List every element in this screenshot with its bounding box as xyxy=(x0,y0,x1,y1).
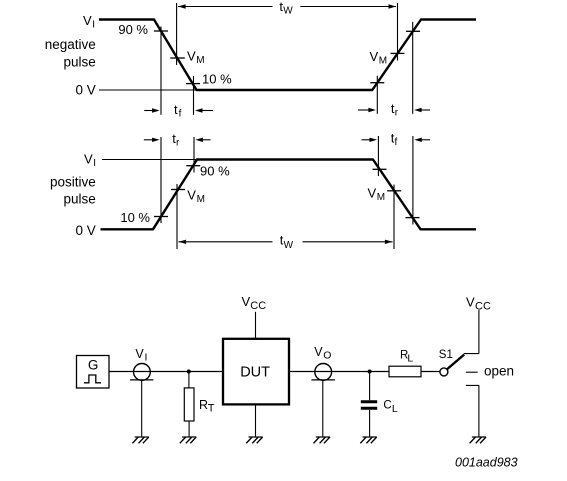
tick 90% falling (wave2) xyxy=(373,168,387,170)
negative pulse caption xyxy=(45,37,96,70)
DUT U1 xyxy=(223,339,289,405)
svg-text:f: f xyxy=(179,108,182,119)
ground (probe VO) xyxy=(314,437,331,443)
wire output net xyxy=(289,371,440,373)
tr label (wave1) xyxy=(391,101,399,119)
svg-text:10 %: 10 % xyxy=(120,210,150,225)
node VM label (wave1 rising edge) xyxy=(370,49,388,67)
svg-text:V: V xyxy=(242,294,251,309)
tick 10% falling (wave1) xyxy=(186,83,200,85)
svg-text:open: open xyxy=(484,363,514,378)
tick 90% rising (wave1) xyxy=(406,30,420,32)
svg-text:V: V xyxy=(368,186,377,201)
node VM label (wave1 falling edge) xyxy=(187,48,205,66)
extension line VM rising to tW (wave1) xyxy=(397,3,399,61)
svg-text:001aad983: 001aad983 xyxy=(455,456,518,470)
arrowhead tW left (wave2) xyxy=(179,240,187,244)
tf label (wave1) xyxy=(174,102,182,120)
svg-text:M: M xyxy=(197,194,205,205)
svg-text:I: I xyxy=(93,158,96,169)
tW label (wave2) xyxy=(280,233,294,252)
node VI label (wave2) xyxy=(84,152,96,170)
wire main input net xyxy=(109,371,223,373)
tick VM falling (wave2) xyxy=(387,190,401,192)
wire VI reference line (wave2) xyxy=(102,159,197,161)
arrowhead tW left (wave1) xyxy=(178,4,186,8)
pulse generator G xyxy=(77,356,110,389)
node VM label (wave2 falling edge) xyxy=(368,186,386,204)
svg-text:V: V xyxy=(370,49,379,64)
svg-text:M: M xyxy=(379,55,387,66)
svg-text:W: W xyxy=(284,240,294,251)
svg-text:L: L xyxy=(392,403,398,415)
extension line 10% rising to tr (wave1) xyxy=(376,76,378,114)
extension line VM rising to tW (wave2) xyxy=(176,184,178,249)
tf label (wave2) xyxy=(391,131,398,149)
svg-text:90 %: 90 % xyxy=(118,22,148,37)
extension line 90% falling to tf (wave1) xyxy=(160,27,162,115)
svg-text:L: L xyxy=(407,353,413,365)
svg-text:CC: CC xyxy=(250,300,266,312)
svg-text:positive: positive xyxy=(50,174,96,189)
RL label xyxy=(400,350,413,365)
node junction input xyxy=(187,370,191,374)
extension line 90% falling to tf (wave2) xyxy=(377,136,379,176)
node junction output xyxy=(368,370,372,374)
svg-text:C: C xyxy=(383,399,391,411)
dimension tf arrows (wave2) xyxy=(362,138,431,142)
svg-text:f: f xyxy=(395,137,398,148)
open throw contact xyxy=(466,371,478,373)
wire DUT to ground xyxy=(255,404,257,437)
svg-text:V: V xyxy=(314,345,323,359)
node VI label (wave1) xyxy=(83,13,95,31)
tick 90% rising (wave2) xyxy=(186,165,200,167)
probe VO xyxy=(311,364,335,438)
svg-text:T: T xyxy=(208,403,215,415)
extension line 90% rising to tr (wave1) xyxy=(412,22,414,114)
svg-text:V: V xyxy=(466,294,475,309)
VCC label (DUT supply) xyxy=(242,294,267,312)
svg-text:DUT: DUT xyxy=(240,364,270,380)
extension line 10% rising to tr (wave2) xyxy=(160,137,162,223)
svg-text:V: V xyxy=(187,187,196,202)
svg-text:90 %: 90 % xyxy=(200,163,230,178)
RT label xyxy=(199,398,215,415)
dimension tr arrows (wave2) xyxy=(144,138,211,142)
tick 90% falling (wave1) xyxy=(154,30,168,32)
wire positive pulse waveform trace xyxy=(101,160,477,230)
VCC label (switch throw) xyxy=(466,294,491,312)
tW label (wave1) xyxy=(279,0,293,17)
ground (switch throw) xyxy=(470,437,487,443)
resistor RT xyxy=(184,372,194,438)
switch S1 pole contact xyxy=(440,368,448,376)
svg-text:O: O xyxy=(323,350,331,362)
svg-text:W: W xyxy=(283,6,293,17)
node VM label (wave2 rising edge) xyxy=(187,187,205,205)
ground (probe VI) xyxy=(132,437,149,443)
wire 0V reference line (wave1) xyxy=(99,89,196,91)
switch S1 arm xyxy=(447,355,464,370)
node VO label xyxy=(314,345,331,362)
ground (DUT) xyxy=(246,437,263,443)
tick 10% rising (wave2) xyxy=(154,216,168,218)
dimension tr arrows (wave1) xyxy=(358,108,430,112)
tick VM rising (wave2) xyxy=(171,189,185,191)
capacitor CL xyxy=(361,372,377,438)
svg-text:pulse: pulse xyxy=(64,54,96,69)
ground (resistor RT) xyxy=(180,437,197,443)
tick 10% falling (wave2) xyxy=(406,217,420,219)
svg-text:pulse: pulse xyxy=(64,192,96,207)
extension line 10% falling to tf (wave1) xyxy=(193,76,195,115)
wire VCC throw xyxy=(464,310,479,354)
svg-text:I: I xyxy=(145,352,148,364)
tick VM falling (wave1) xyxy=(170,57,185,59)
tick VM rising (wave1) xyxy=(391,52,405,54)
dimension tW (wave1) xyxy=(178,6,396,8)
node VI label (circuit) xyxy=(135,347,147,364)
svg-text:R: R xyxy=(199,398,208,412)
svg-text:V: V xyxy=(135,347,144,361)
svg-text:CC: CC xyxy=(475,300,491,312)
svg-text:M: M xyxy=(196,55,204,66)
svg-text:S1: S1 xyxy=(439,349,453,361)
wire VCC to DUT xyxy=(255,312,257,339)
arrowhead tW right (wave1) xyxy=(389,4,397,8)
CL label xyxy=(383,399,398,415)
probe VI xyxy=(130,364,153,438)
tick 10% rising (wave1) xyxy=(370,82,384,84)
extension line 10% falling to tf (wave2) xyxy=(412,136,414,225)
resistor RL xyxy=(389,366,421,377)
svg-text:t: t xyxy=(174,102,178,117)
wire negative pulse waveform trace xyxy=(99,20,476,91)
ground (capacitor CL) xyxy=(360,437,377,443)
wire ground throw xyxy=(466,385,479,437)
extension line VM falling to tW (wave1) xyxy=(176,3,178,65)
svg-text:0 V: 0 V xyxy=(76,223,96,238)
svg-text:M: M xyxy=(377,192,385,203)
positive pulse caption xyxy=(50,174,96,206)
svg-text:10 %: 10 % xyxy=(202,72,232,87)
svg-text:V: V xyxy=(83,13,92,28)
dimension tW (wave2) xyxy=(179,241,393,243)
arrowhead tW right (wave2) xyxy=(385,240,393,244)
extension line VM falling to tW (wave2) xyxy=(393,185,395,250)
svg-text:0 V: 0 V xyxy=(76,83,96,98)
tr label (wave2) xyxy=(172,131,180,149)
svg-text:V: V xyxy=(84,152,93,167)
svg-text:V: V xyxy=(187,48,196,63)
svg-text:I: I xyxy=(92,20,95,31)
dimension tf arrows (wave1) xyxy=(144,108,213,112)
svg-text:negative: negative xyxy=(45,37,96,52)
svg-text:G: G xyxy=(88,358,99,373)
extension line 90% rising to tr (wave2) xyxy=(193,137,195,173)
